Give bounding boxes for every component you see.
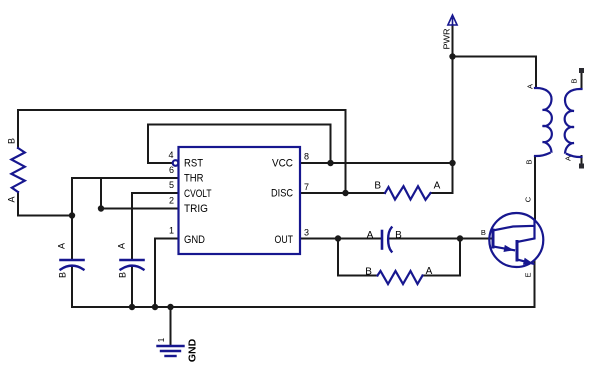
svg-text:B: B [58,272,68,278]
svg-text:E: E [524,272,533,277]
svg-text:3: 3 [304,227,309,237]
svg-text:PWR: PWR [443,28,452,49]
svg-text:6: 6 [169,165,174,175]
svg-text:1: 1 [157,337,166,342]
svg-text:THR: THR [184,173,204,185]
svg-text:B: B [365,267,372,278]
svg-text:A: A [367,230,374,241]
svg-text:CVOLT: CVOLT [184,188,212,200]
svg-text:A: A [57,243,67,249]
svg-text:4: 4 [168,150,173,160]
svg-text:OUT: OUT [275,234,294,246]
svg-text:B: B [395,230,402,241]
svg-text:A: A [526,84,535,89]
svg-text:GND: GND [187,338,199,362]
svg-text:7: 7 [304,182,309,192]
svg-text:B: B [7,138,17,144]
svg-text:8: 8 [304,152,309,162]
svg-text:1: 1 [169,226,174,236]
svg-text:VCC: VCC [272,158,293,170]
svg-text:B: B [118,272,128,278]
svg-text:B: B [374,181,381,192]
svg-text:B: B [481,228,486,237]
svg-text:2: 2 [169,196,174,206]
svg-text:RST: RST [184,158,203,170]
svg-text:TRIG: TRIG [184,203,208,215]
svg-text:C: C [524,196,533,202]
svg-text:A: A [426,266,433,277]
svg-text:DISC: DISC [271,188,293,200]
svg-text:A: A [434,181,441,192]
svg-text:B: B [525,159,534,164]
svg-text:5: 5 [169,180,174,190]
svg-text:GND: GND [184,234,205,246]
svg-text:A: A [117,243,127,249]
svg-text:B: B [570,78,579,83]
svg-text:A: A [564,156,573,161]
svg-text:A: A [7,196,17,202]
